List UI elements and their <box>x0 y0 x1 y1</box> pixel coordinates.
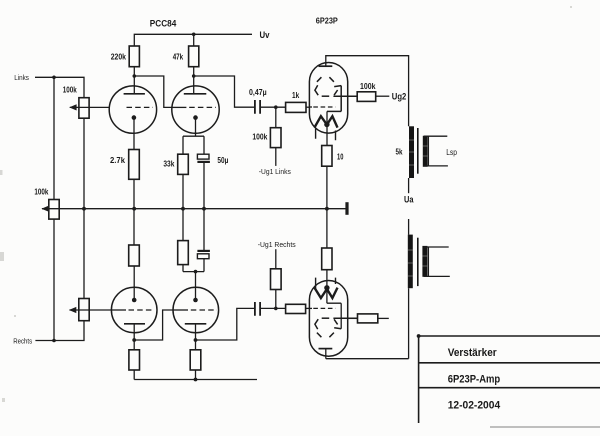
svg-text:2.7k: 2.7k <box>110 156 126 165</box>
svg-text:Uv: Uv <box>260 30 270 40</box>
svg-text:100k: 100k <box>63 86 77 95</box>
svg-text:Verstärker: Verstärker <box>448 347 498 359</box>
svg-text:Links: Links <box>14 73 29 82</box>
svg-text:6P23P-Amp: 6P23P-Amp <box>448 374 501 386</box>
svg-text:0,47µ: 0,47µ <box>249 88 267 97</box>
svg-text:100k: 100k <box>34 187 48 196</box>
svg-text:50µ: 50µ <box>217 156 228 165</box>
svg-text:10: 10 <box>337 152 344 161</box>
svg-text:Ua: Ua <box>404 195 414 205</box>
svg-text:Rechts: Rechts <box>13 336 32 345</box>
svg-text:-Ug1 Links: -Ug1 Links <box>259 167 291 176</box>
svg-text:100k: 100k <box>252 133 267 142</box>
svg-text:100k: 100k <box>360 82 376 91</box>
svg-text:PCC84: PCC84 <box>150 18 177 29</box>
svg-text:-Ug1 Rechts: -Ug1 Rechts <box>258 240 296 249</box>
svg-text:12-02-2004: 12-02-2004 <box>448 399 501 411</box>
svg-text:47k: 47k <box>173 53 184 62</box>
svg-text:5k: 5k <box>396 147 403 156</box>
svg-text:220k: 220k <box>111 53 127 62</box>
svg-text:33k: 33k <box>163 160 174 169</box>
svg-text:Ug2: Ug2 <box>392 91 407 101</box>
svg-text:6P23P: 6P23P <box>316 16 338 26</box>
svg-text:Lsp: Lsp <box>446 148 457 157</box>
svg-text:1k: 1k <box>292 91 300 100</box>
